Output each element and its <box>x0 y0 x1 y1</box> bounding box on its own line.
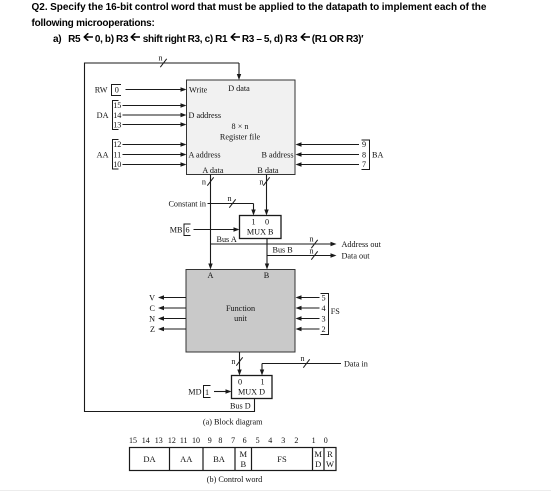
control word field MB <box>240 449 248 469</box>
svg-text:MUX D: MUX D <box>238 388 265 397</box>
control word field BA <box>213 454 226 464</box>
svg-text:4: 4 <box>268 436 272 445</box>
svg-text:11: 11 <box>113 150 121 159</box>
svg-text:AA: AA <box>97 150 109 159</box>
svg-text:C: C <box>150 304 156 313</box>
wire: AA bit 10 to A address <box>123 162 187 166</box>
svg-text:11: 11 <box>180 436 188 445</box>
svg-text:Data in: Data in <box>344 359 368 368</box>
svg-text:M: M <box>314 449 322 459</box>
wire: DA bit 13 to D address <box>123 122 187 126</box>
wire: B data from register file to MUX B input 0 <box>264 175 268 216</box>
svg-text:n: n <box>300 354 304 363</box>
svg-text:0: 0 <box>324 436 328 445</box>
svg-text:D data: D data <box>228 84 250 93</box>
MB control field label with bit 6 <box>170 224 191 236</box>
wire: FS bit 5 to function unit <box>296 293 326 302</box>
svg-text:3: 3 <box>321 314 325 323</box>
svg-text:n: n <box>158 54 162 63</box>
svg-text:D address: D address <box>189 111 222 120</box>
wire: RW to Write input <box>126 87 187 91</box>
svg-text:15: 15 <box>129 436 137 445</box>
wire: BA bit 9 to B address <box>296 142 360 146</box>
wire: Bus D output segment below MUX D <box>254 398 256 411</box>
wire: BA bit 7 to B address <box>296 162 360 166</box>
svg-text:BA: BA <box>372 150 383 159</box>
svg-text:DA: DA <box>97 111 109 120</box>
svg-text:Register file: Register file <box>220 132 261 141</box>
svg-text:15: 15 <box>113 101 121 110</box>
control word field MD <box>314 449 322 469</box>
wire: AA bit 11 to A address <box>123 152 187 156</box>
svg-text:Constant in: Constant in <box>168 199 206 208</box>
svg-text:6: 6 <box>243 436 247 445</box>
AA control field label with bits 12,11,10 <box>97 140 122 170</box>
svg-text:M: M <box>240 449 248 459</box>
svg-text:B data: B data <box>257 166 279 175</box>
wire: function unit output to MUX D input 0 <box>237 352 241 376</box>
wire: Bus B to Data out <box>267 251 370 260</box>
bus width slash: n on function unit output <box>231 357 242 366</box>
bus width slash: n on Data in wire <box>300 354 309 368</box>
svg-text:Bus D: Bus D <box>230 402 251 411</box>
wire: Constant in to MUX B input 1 <box>168 199 255 215</box>
question text line 2 <box>32 19 155 29</box>
control word field divider DA|AA <box>169 448 171 471</box>
svg-text:1: 1 <box>205 388 209 397</box>
MD control field label with bit 1 <box>188 386 210 398</box>
wire: Bus D feedback top segment into D data <box>84 63 241 80</box>
svg-text:13: 13 <box>113 120 121 129</box>
svg-text:RW: RW <box>95 86 108 95</box>
svg-text:9: 9 <box>208 436 212 445</box>
svg-text:unit: unit <box>234 314 247 323</box>
svg-text:B: B <box>264 271 270 280</box>
svg-text:4: 4 <box>321 304 325 313</box>
svg-text:Bus A: Bus A <box>217 235 237 244</box>
svg-text:6: 6 <box>185 225 189 234</box>
svg-text:7: 7 <box>231 436 235 445</box>
wire: status flag V output <box>149 293 186 302</box>
svg-text:A: A <box>208 271 214 280</box>
svg-text:14: 14 <box>142 436 150 445</box>
control word field divider FS|MD <box>312 448 314 471</box>
bus width slash: n on Address out <box>309 234 317 248</box>
svg-text:n: n <box>309 234 313 243</box>
svg-text:8: 8 <box>218 436 222 445</box>
RW control field label with bit 0 <box>95 85 121 96</box>
svg-text:14: 14 <box>113 111 121 120</box>
wire: MB select to MUX B <box>194 227 240 231</box>
bus width slash: n on B data wire <box>259 177 269 186</box>
wire: status flag N output <box>149 314 186 323</box>
control word field divider BA|MB <box>234 448 236 471</box>
svg-text:5: 5 <box>256 436 260 445</box>
svg-text:2: 2 <box>294 436 298 445</box>
svg-text:AA: AA <box>180 454 193 464</box>
svg-text:MUX B: MUX B <box>247 227 274 236</box>
MUX D block <box>232 376 273 399</box>
bus width slash: n on Constant in wire <box>227 194 235 208</box>
control word field DA <box>143 454 156 464</box>
wire: BA bit 8 to B address <box>296 152 360 156</box>
control word field FS <box>277 454 287 464</box>
wire: DA bit 14 to D address <box>123 113 187 117</box>
wire: FS bit 4 to function unit <box>296 304 326 313</box>
svg-text:A address: A address <box>189 150 221 159</box>
control word field divider AA|BA <box>202 448 204 471</box>
wire: AA bit 12 to A address <box>123 142 187 146</box>
FS control field label bracket <box>321 294 341 335</box>
svg-text:DA: DA <box>143 454 156 464</box>
svg-text:12: 12 <box>113 140 121 149</box>
svg-text:BA: BA <box>213 454 226 464</box>
svg-text:7: 7 <box>362 160 366 169</box>
svg-text:1: 1 <box>312 436 316 445</box>
svg-text:Write: Write <box>189 85 208 94</box>
svg-text:0: 0 <box>265 217 269 226</box>
svg-text:0: 0 <box>238 377 242 386</box>
svg-text:(a) Block diagram: (a) Block diagram <box>203 417 263 426</box>
wire: Bus D feedback bottom segment <box>85 411 256 413</box>
svg-text:B: B <box>240 459 246 469</box>
wire: Bus A to Address out <box>211 240 382 249</box>
svg-text:V: V <box>149 293 155 302</box>
wire: FS bit 3 to function unit <box>296 314 326 323</box>
wire: status flag C output <box>150 304 186 313</box>
node: Bus B label <box>273 245 294 254</box>
question text line 1 <box>32 3 487 13</box>
svg-text:MB: MB <box>170 225 183 234</box>
question text line 3 <box>53 33 363 45</box>
bus width slash: n on Data out <box>309 246 317 259</box>
MUX B block <box>240 216 282 239</box>
svg-text:n: n <box>231 357 235 366</box>
bus width slash: n on top feedback wire <box>158 54 166 68</box>
svg-text:B address: B address <box>261 150 293 159</box>
svg-text:W: W <box>326 459 334 469</box>
svg-text:FS: FS <box>331 307 341 316</box>
wire: Data in to MUX D input 1 <box>260 359 368 375</box>
svg-text:MD: MD <box>188 387 201 396</box>
svg-text:Z: Z <box>150 325 155 334</box>
svg-text:10: 10 <box>113 160 121 169</box>
caption: (b) Control word <box>207 475 263 484</box>
svg-text:A data: A data <box>202 166 224 175</box>
node: Bus A label <box>217 235 237 244</box>
wire: FS bit 2 to function unit <box>296 325 326 334</box>
page bottom rule <box>0 490 551 492</box>
control word register outline <box>130 448 337 471</box>
svg-text:2: 2 <box>321 325 325 334</box>
wire: MUX B output to function unit B <box>265 239 269 270</box>
svg-text:D: D <box>315 459 321 469</box>
svg-text:n: n <box>202 177 206 186</box>
svg-text:Data out: Data out <box>342 251 371 260</box>
wire: Bus D feedback left segment <box>84 63 86 413</box>
control word field divider MD|RW <box>323 448 325 471</box>
wire: MD select to MUX D <box>214 389 232 393</box>
svg-text:13: 13 <box>155 436 163 445</box>
svg-text:9: 9 <box>362 140 366 149</box>
svg-text:3: 3 <box>281 436 285 445</box>
svg-text:Bus B: Bus B <box>273 245 294 254</box>
svg-text:FS: FS <box>277 454 287 464</box>
function unit block <box>186 270 295 353</box>
control word field divider MB|FS <box>251 448 253 471</box>
svg-text:10: 10 <box>192 436 200 445</box>
register file block (8 x n) <box>187 80 296 175</box>
control word field AA <box>180 454 193 464</box>
wire: A data from register file to function unit A <box>208 175 212 270</box>
svg-text:0: 0 <box>115 86 119 95</box>
DA control field label with bits 15,14,13 <box>97 101 122 130</box>
svg-text:12: 12 <box>168 436 176 445</box>
svg-text:Function: Function <box>226 304 255 313</box>
svg-text:1: 1 <box>251 217 255 226</box>
svg-text:n: n <box>227 194 231 203</box>
svg-text:n: n <box>309 246 313 255</box>
BA control field label with bits 9,8,7 <box>362 140 384 170</box>
svg-text:N: N <box>149 314 155 323</box>
control word field RW <box>326 449 334 469</box>
svg-text:8: 8 <box>362 150 366 159</box>
svg-text:(b) Control word: (b) Control word <box>207 475 263 484</box>
svg-text:1: 1 <box>260 377 264 386</box>
svg-text:R: R <box>327 449 333 459</box>
control word bit numbers 15..0 <box>129 436 328 445</box>
svg-text:Address out: Address out <box>342 240 382 249</box>
wire: status flag Z output <box>150 325 186 334</box>
svg-text:8 × n: 8 × n <box>232 122 249 131</box>
svg-text:5: 5 <box>321 293 325 302</box>
node: Bus D label <box>230 402 251 411</box>
caption: (a) Block diagram <box>203 417 263 426</box>
bus width slash: n on A data wire <box>202 177 214 186</box>
svg-text:n: n <box>259 177 263 186</box>
wire: DA bit 15 to D address <box>123 103 187 107</box>
